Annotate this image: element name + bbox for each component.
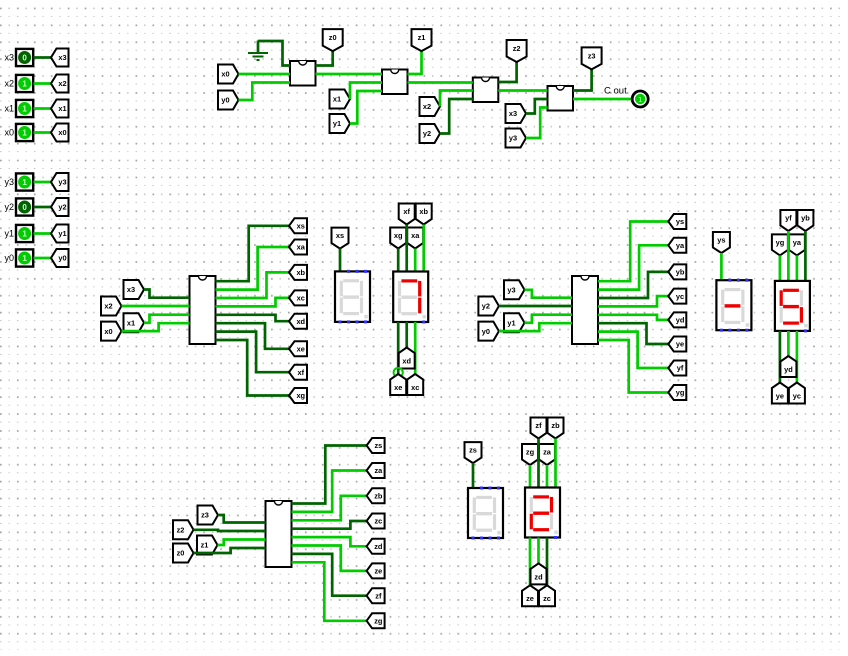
wire U1 output xb (216, 272, 290, 298)
tunnel ze (from DS6) (522, 585, 538, 606)
svg-text:ze: ze (374, 567, 382, 576)
tunnel x0 (source) (51, 124, 69, 142)
wire DS4 to yd (787, 331, 790, 356)
wire yg to DS4 (779, 255, 782, 281)
tunnel zf (decoder output) (367, 588, 385, 603)
tunnel z2 (sum out) (507, 40, 527, 62)
tunnel z2 (decoder input) (173, 520, 194, 539)
wire U2 output ye (598, 323, 668, 344)
tunnel y2 (decoder input) (478, 297, 499, 316)
tunnel xb (decoder output) (289, 265, 307, 280)
7-seg display DS6 (z = 2) (525, 488, 560, 540)
wire FA2 sum to z2 (498, 62, 516, 82)
7-seg display DS1 (x sign, blank) (335, 270, 370, 324)
7-segment decoder U2 (y) (572, 276, 598, 344)
wire ys to display DS3 (720, 253, 723, 280)
wire y1 pin to tunnel (34, 232, 52, 235)
svg-text:za: za (543, 447, 552, 456)
input pin x0=1 (4, 124, 33, 141)
input pin y1=1 (4, 225, 33, 242)
tunnel y0 (decoder input) (478, 322, 499, 341)
wire ground to FA0 carry-in (258, 41, 290, 66)
tunnel xf (decoder output) (289, 365, 307, 380)
svg-text:zs: zs (374, 441, 382, 450)
svg-text:z0: z0 (329, 33, 337, 42)
svg-text:xb: xb (419, 207, 428, 216)
svg-text:1: 1 (22, 104, 27, 113)
wire xb to DS2 (422, 225, 425, 272)
wire U1 output xs (216, 226, 290, 281)
svg-text:ya: ya (676, 241, 685, 250)
wire U3 output zd (292, 537, 367, 546)
wire U2 output yf (598, 332, 668, 368)
tunnel x2 (source) (51, 75, 69, 93)
tunnel zd (decoder output) (367, 539, 385, 554)
tunnel y3 (adder input) (506, 129, 527, 148)
wire DS4 to yc (796, 331, 799, 383)
wire y2 to FA2 (440, 99, 473, 134)
7-segment decoder U1 (x) (190, 276, 216, 344)
wire x3 to FA3 (526, 99, 548, 114)
7-seg display DS2 (x = 7) (393, 272, 428, 324)
input pin x3=0 (4, 49, 33, 66)
tunnel zg (decoder output) (367, 613, 385, 628)
full-adder FA2 (bit 2) (473, 78, 499, 103)
tunnel y1 (source) (51, 225, 69, 243)
tunnel x2 (adder input) (420, 97, 441, 116)
output pin C out (604, 86, 648, 108)
tunnel ye (from DS4) (772, 383, 788, 404)
tunnel yb (to DS4) (797, 210, 813, 231)
tunnel za (decoder output) (367, 463, 385, 478)
wire U3 output za (292, 471, 367, 512)
svg-text:y1: y1 (507, 318, 515, 327)
svg-text:zc: zc (374, 517, 382, 526)
svg-text:zd: zd (534, 572, 543, 581)
tunnel yg (decoder output) (668, 385, 686, 400)
wire U3 output zs (292, 446, 367, 504)
tunnel y1 (adder input) (330, 114, 351, 133)
svg-text:y0: y0 (482, 327, 490, 336)
svg-text:y2: y2 (58, 203, 66, 212)
wire FA0 sum to z0 (316, 51, 333, 65)
wire x3 to U1 (144, 290, 190, 298)
tunnel xs (decoder output) (289, 218, 307, 233)
wire DS6 to zd (537, 538, 540, 564)
svg-text:yc: yc (676, 292, 684, 301)
svg-text:xg: xg (394, 231, 403, 240)
full-adder FA1 (bit 1) (382, 70, 408, 95)
svg-text:y1: y1 (4, 229, 14, 239)
tunnel x0 (adder input) (218, 65, 239, 84)
wire FA1 carry to FA2 (408, 81, 473, 84)
wire z1 to U3 (218, 540, 266, 546)
wire U2 output yb (598, 272, 668, 298)
tunnel ys (sign) (713, 232, 730, 253)
svg-text:xs: xs (336, 231, 344, 240)
wire U1 output xg (216, 340, 290, 396)
tunnel xs (sign) (332, 228, 349, 249)
wire U3 output ze (292, 546, 367, 571)
wire y1 to U2 (525, 315, 573, 323)
svg-text:z0: z0 (177, 549, 185, 558)
tunnel y2 (source) (51, 198, 69, 216)
wire xa to DS2 (414, 249, 417, 272)
wire DS2 to xe (397, 322, 400, 374)
svg-text:1: 1 (22, 229, 27, 238)
tunnel xe (decoder output) (289, 341, 307, 356)
tunnel xf (to DS2) (399, 204, 415, 225)
wire U2 output ya (598, 245, 668, 289)
svg-text:ye: ye (776, 391, 784, 400)
wire y3 to FA3 (526, 108, 548, 139)
svg-text:xd: xd (402, 356, 411, 365)
svg-text:0: 0 (22, 53, 27, 62)
svg-text:zc: zc (543, 594, 551, 603)
svg-text:y3: y3 (507, 285, 515, 294)
input pin y2=0 (4, 198, 33, 215)
svg-text:xe: xe (297, 344, 305, 353)
wire x0 to U1 (122, 323, 190, 331)
svg-text:y0: y0 (4, 253, 14, 263)
wire x0 pin to tunnel (34, 131, 52, 134)
tunnel za (to DS6) (539, 444, 555, 465)
tunnel xg (to DS2) (390, 228, 406, 249)
tunnel yc (decoder output) (668, 289, 686, 304)
svg-text:xc: xc (297, 294, 305, 303)
full-adder FA0 (bit 0) (290, 61, 316, 86)
svg-text:zf: zf (535, 421, 542, 430)
tunnel xc (decoder output) (289, 290, 307, 305)
wire za to DS6 (546, 465, 549, 488)
svg-text:zf: zf (375, 591, 382, 600)
input pin x2=1 (4, 75, 33, 92)
svg-text:zb: zb (374, 491, 383, 500)
wire U1 output xa (216, 247, 290, 290)
wire y0 pin to tunnel (34, 257, 52, 260)
input pin x1=1 (4, 100, 33, 117)
svg-text:x0: x0 (58, 128, 66, 137)
tunnel ze (decoder output) (367, 563, 385, 578)
svg-text:ze: ze (526, 594, 534, 603)
tunnel y0 (adder input) (218, 91, 239, 110)
svg-text:x1: x1 (58, 104, 66, 113)
svg-text:y3: y3 (509, 134, 517, 143)
svg-text:xa: xa (297, 243, 306, 252)
svg-text:zb: zb (551, 421, 560, 430)
svg-text:1: 1 (638, 97, 642, 104)
wire zf to DS6 (537, 439, 540, 488)
tunnel y0 (source) (51, 249, 69, 267)
tunnel zc (decoder output) (367, 514, 385, 529)
tunnel z3 (sum out) (582, 47, 602, 69)
wire U1 output xf (216, 332, 290, 373)
tunnel ya (to DS4) (789, 234, 805, 255)
tunnel y3 (decoder input) (504, 280, 525, 299)
tunnel ye (decoder output) (668, 337, 686, 352)
wire yf to DS4 (787, 231, 790, 281)
wire FA2 carry to FA3 (498, 89, 547, 92)
tunnel y3 (source) (51, 173, 69, 191)
svg-text:yg: yg (776, 238, 785, 247)
tunnel z0 (sum out) (323, 29, 343, 51)
svg-text:ys: ys (676, 217, 684, 226)
tunnel xd (decoder output) (289, 314, 307, 329)
tunnel yg (to DS4) (772, 234, 788, 255)
tunnel zb (to DS6) (548, 418, 564, 439)
wire U1 output xe (216, 323, 290, 349)
wire DS6 to zc (546, 538, 549, 586)
svg-text:y3: y3 (58, 178, 66, 187)
wire DS4 to ye (779, 331, 782, 383)
svg-text:0: 0 (22, 203, 27, 212)
svg-text:ye: ye (676, 340, 684, 349)
svg-text:y2: y2 (482, 302, 490, 311)
svg-text:za: za (374, 466, 383, 475)
unconnected wire-end ring at xe (394, 368, 403, 377)
svg-text:z3: z3 (201, 511, 209, 520)
wire FA3 sum to z3 (573, 69, 592, 90)
input pin y0=1 (4, 249, 33, 266)
svg-text:yd: yd (784, 365, 793, 374)
wire zb to DS6 (554, 439, 557, 488)
svg-text:1: 1 (22, 178, 27, 187)
tunnel xa (to DS2) (407, 228, 423, 249)
tunnel x1 (source) (51, 100, 69, 118)
7-segment decoder U3 (z) (266, 501, 292, 567)
wire DS6 to ze (529, 538, 532, 586)
svg-text:1: 1 (22, 128, 27, 137)
wire x1 pin to tunnel (34, 107, 52, 110)
ground symbol (248, 41, 268, 61)
svg-text:x1: x1 (4, 104, 14, 114)
tunnel yf (decoder output) (668, 361, 686, 376)
svg-text:zg: zg (526, 447, 535, 456)
wire FA3 carry to C-out LED (573, 98, 632, 101)
wire U3 output zc (292, 521, 367, 529)
tunnel zb (decoder output) (367, 488, 385, 503)
svg-text:xa: xa (411, 231, 420, 240)
svg-text:x3: x3 (4, 53, 14, 63)
tunnel xa (decoder output) (289, 240, 307, 255)
svg-text:x0: x0 (4, 128, 14, 138)
wire y2 to U2 (499, 305, 572, 308)
wire zs to display DS5 (472, 463, 475, 488)
svg-text:x3: x3 (127, 285, 135, 294)
svg-text:y2: y2 (4, 202, 14, 212)
full-adder FA3 (bit 3) (548, 86, 574, 111)
wire U3 output zb (292, 496, 367, 521)
tunnel ys (decoder output) (668, 214, 686, 229)
tunnel yf (to DS4) (780, 210, 796, 231)
wire y3 pin to tunnel (34, 181, 52, 184)
svg-text:x3: x3 (509, 109, 517, 118)
wire y0 to U2 (499, 323, 572, 331)
wire yb to DS4 (804, 231, 807, 281)
svg-text:yg: yg (676, 388, 685, 397)
tunnel zg (to DS6) (522, 444, 538, 465)
7-seg display DS5 (z sign, blank) (468, 487, 503, 540)
svg-text:yd: yd (676, 316, 685, 325)
svg-text:yc: yc (793, 391, 801, 400)
svg-text:x3: x3 (58, 53, 66, 62)
svg-text:ys: ys (717, 235, 725, 244)
tunnel zs (decoder output) (367, 438, 385, 453)
svg-text:y0: y0 (58, 254, 66, 263)
wire DS2 to xc (414, 322, 417, 374)
wire y3 to U2 (525, 290, 573, 298)
tunnel x3 (source) (51, 49, 69, 67)
7-seg display DS4 (y = 5) (775, 281, 810, 333)
svg-text:x1: x1 (127, 318, 135, 327)
tunnel x3 (decoder input) (124, 280, 145, 299)
wire y0 to FA0 (239, 83, 291, 101)
svg-text:xs: xs (297, 221, 305, 230)
7-seg display DS3 (y sign, minus) (716, 279, 751, 332)
svg-text:x2: x2 (104, 302, 112, 311)
svg-text:xf: xf (297, 368, 304, 377)
wire U2 output ys (598, 222, 668, 282)
wire U2 output yg (598, 340, 668, 393)
svg-text:xd: xd (296, 317, 305, 326)
tunnel xd (from DS2) (399, 348, 415, 369)
wire x2 to U1 (122, 305, 190, 308)
wire DS2 to xd (405, 322, 408, 348)
svg-text:z2: z2 (513, 44, 521, 53)
svg-text:yb: yb (676, 268, 685, 277)
wire FA0 carry to FA1 (316, 73, 383, 76)
tunnel ya (decoder output) (668, 238, 686, 253)
tunnel z1 (sum out) (412, 29, 432, 51)
svg-text:xg: xg (296, 391, 305, 400)
wire FA1 sum to z1 (408, 51, 422, 74)
wire x3 pin to tunnel (34, 56, 52, 59)
svg-text:xb: xb (296, 268, 305, 277)
wire U2 output yd (598, 315, 668, 320)
tunnel x0 (decoder input) (101, 322, 122, 341)
wire ya to DS4 (796, 255, 799, 281)
tunnel yc (from DS4) (789, 383, 805, 404)
wire U3 output zg (292, 562, 367, 621)
wire z2 to U3 (194, 530, 266, 531)
wire U3 output zf (292, 554, 367, 596)
svg-text:zg: zg (374, 616, 383, 625)
svg-text:xf: xf (403, 207, 410, 216)
tunnel z0 (decoder input) (173, 544, 194, 563)
svg-text:x0: x0 (221, 70, 229, 79)
svg-text:z1: z1 (201, 541, 209, 550)
svg-text:y2: y2 (423, 129, 431, 138)
svg-text:C out: C out (604, 86, 627, 97)
svg-text:xc: xc (411, 383, 419, 392)
svg-text:x1: x1 (333, 95, 341, 104)
svg-text:x2: x2 (423, 102, 431, 111)
tunnel x3 (adder input) (506, 104, 527, 123)
svg-text:y1: y1 (58, 229, 66, 238)
svg-text:x2: x2 (4, 79, 14, 89)
tunnel xg (decoder output) (289, 388, 307, 403)
tunnel xb (to DS2) (416, 204, 432, 225)
tunnel z1 (decoder input) (197, 536, 218, 555)
tunnel yd (from DS4) (780, 356, 796, 377)
wire x1 to FA1 (350, 83, 382, 100)
svg-text:y3: y3 (4, 177, 14, 187)
svg-text:x2: x2 (58, 79, 66, 88)
tunnel xe (from DS2) (390, 374, 406, 395)
wire z0 to U3 (194, 548, 266, 553)
wire U1 output xc (216, 298, 290, 307)
wire y2 pin to tunnel (34, 206, 52, 209)
tunnel yb (decoder output) (668, 264, 686, 279)
wire U1 output xd (216, 315, 290, 321)
wire x0 to FA0 (239, 73, 291, 76)
svg-text:z1: z1 (418, 33, 426, 42)
tunnel zd (from DS6) (531, 563, 547, 584)
wire U2 output yc (598, 296, 668, 306)
svg-text:zs: zs (469, 446, 477, 455)
svg-text:y0: y0 (221, 96, 229, 105)
svg-text:z3: z3 (588, 51, 596, 60)
tunnel zc (from DS6) (539, 585, 555, 606)
wire xs to display DS1 (339, 249, 342, 272)
svg-text:ya: ya (793, 238, 802, 247)
input pin y3=1 (4, 173, 33, 190)
tunnel z3 (decoder input) (198, 506, 219, 525)
svg-text:1: 1 (22, 254, 27, 263)
svg-text:x0: x0 (104, 327, 112, 336)
svg-text:yf: yf (785, 213, 792, 222)
wire x2 pin to tunnel (34, 82, 52, 85)
wire xg to DS2 (397, 249, 400, 272)
wire y1 to FA1 (350, 91, 382, 124)
tunnel x2 (decoder input) (101, 297, 122, 316)
tunnel zs (sign) (465, 442, 482, 463)
svg-text:yf: yf (677, 364, 684, 373)
tunnel y2 (adder input) (420, 124, 441, 143)
svg-text:z2: z2 (177, 525, 185, 534)
tunnel x1 (adder input) (330, 90, 351, 109)
tunnel x1 (decoder input) (124, 313, 145, 332)
wire x2 to FA2 (440, 91, 473, 107)
wire xf to DS2 (405, 225, 408, 272)
svg-text:xe: xe (394, 383, 402, 392)
tunnel zf (to DS6) (531, 418, 547, 439)
svg-text:zd: zd (374, 542, 383, 551)
svg-text:y1: y1 (333, 119, 341, 128)
wire zg to DS6 (529, 465, 532, 488)
svg-text:1: 1 (22, 79, 27, 88)
wire z3 to U3 (218, 515, 266, 523)
tunnel xc (from DS2) (407, 374, 423, 395)
tunnel y1 (decoder input) (504, 313, 525, 332)
tunnel yd (decoder output) (668, 312, 686, 327)
svg-text:yb: yb (801, 213, 810, 222)
wire x1 to U1 (144, 315, 190, 323)
